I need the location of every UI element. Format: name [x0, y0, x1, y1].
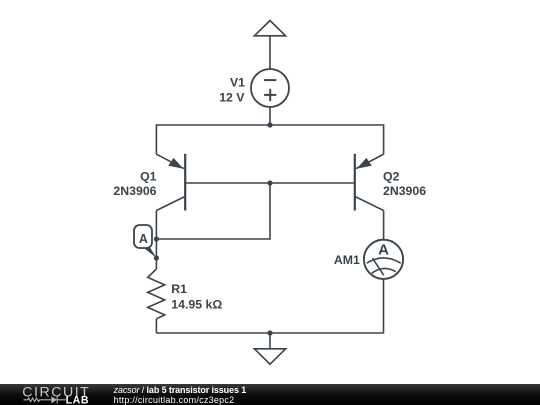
transistor Q2 [355, 154, 384, 211]
wire R1 to bottom rail [155, 319, 157, 333]
wire top rail [156, 125, 383, 154]
wire to ground [269, 333, 271, 349]
wire bottom rail [156, 332, 383, 334]
voltage source V1 [251, 69, 289, 107]
node A anchor dot [154, 255, 159, 260]
ground [254, 349, 285, 364]
svg-text:R1: R1 [171, 282, 187, 296]
svg-text:V1: V1 [230, 75, 245, 89]
node A flag [134, 225, 156, 258]
power flag VCC [254, 21, 285, 36]
wire flag to V1 [269, 36, 271, 69]
node junction top rail [267, 122, 272, 127]
ammeter AM1 [364, 240, 403, 279]
wire base rail [185, 182, 355, 184]
wire V1 to top rail [269, 107, 271, 125]
svg-text:12 V: 12 V [219, 90, 245, 104]
wire Q2 collector to AM1 [383, 211, 385, 240]
svg-text:AM1: AM1 [334, 253, 360, 267]
wire Q1 collector down [155, 211, 157, 270]
svg-text:14.95 kΩ: 14.95 kΩ [171, 298, 222, 312]
svg-text:2N3906: 2N3906 [383, 184, 426, 198]
svg-text:Q2: Q2 [383, 170, 400, 184]
svg-text:A: A [139, 232, 148, 246]
node junction ground [267, 330, 272, 335]
footer text [114, 386, 247, 405]
CircuitLab logo [21, 384, 101, 405]
transistor Q1 [156, 154, 185, 211]
node junction base [267, 180, 272, 185]
resistor R1 [148, 269, 165, 319]
node junction A [154, 236, 159, 241]
svg-text:Q1: Q1 [140, 170, 157, 184]
svg-text:2N3906: 2N3906 [113, 184, 156, 198]
svg-text:LAB: LAB [66, 395, 90, 405]
svg-text:A: A [378, 242, 389, 259]
footer bar [0, 384, 540, 405]
wire base to collector feedback [156, 183, 270, 239]
wire AM1 to bottom rail [383, 279, 385, 333]
